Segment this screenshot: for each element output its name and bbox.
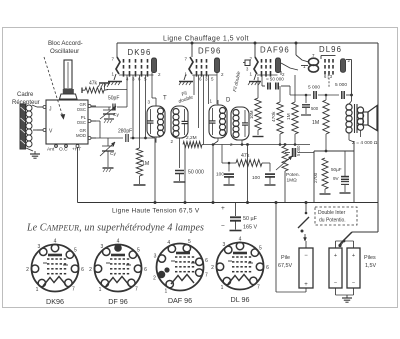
svg-text:1: 1 — [36, 287, 39, 293]
svg-text:50µF: 50µF — [331, 167, 342, 172]
svg-text:6: 6 — [205, 258, 208, 264]
svg-text:3: 3 — [37, 244, 40, 250]
svg-text:Oscillateur: Oscillateur — [50, 48, 79, 55]
svg-text:2: 2 — [89, 267, 92, 273]
svg-text:4: 4 — [167, 240, 170, 246]
svg-text:−: − — [352, 280, 355, 286]
svg-text:2: 2 — [26, 267, 29, 273]
svg-text:Ligne Haute Tension 67,5 V: Ligne Haute Tension 67,5 V — [112, 208, 200, 215]
svg-text:5: 5 — [188, 239, 191, 245]
svg-text:T: T — [163, 96, 167, 102]
svg-text:50 000: 50 000 — [188, 170, 204, 176]
svg-text:DK96: DK96 — [46, 297, 64, 306]
svg-text:165 V: 165 V — [243, 225, 257, 231]
svg-text:50pF: 50pF — [108, 96, 119, 102]
svg-text:7: 7 — [72, 286, 75, 292]
svg-text:DL 96: DL 96 — [231, 295, 250, 304]
svg-text:OSC: OSC — [77, 120, 86, 125]
svg-text:7: 7 — [257, 284, 260, 290]
svg-text:1M: 1M — [312, 120, 319, 126]
svg-text:DL96: DL96 — [319, 45, 342, 54]
svg-text:+: + — [352, 253, 355, 259]
svg-text:280pF: 280pF — [118, 129, 132, 135]
svg-text:1MΩ: 1MΩ — [287, 178, 298, 184]
svg-text:4: 4 — [239, 237, 242, 243]
svg-text:1: 1 — [99, 287, 102, 293]
svg-text:2700: 2700 — [313, 172, 318, 183]
svg-text:47k: 47k — [89, 81, 98, 87]
svg-text:Ant: Ant — [47, 147, 55, 153]
svg-text:Cy: Cy — [113, 112, 119, 118]
svg-text:DF96: DF96 — [198, 47, 221, 56]
svg-text:Ligne Chauffage 1,5 volt: Ligne Chauffage 1,5 volt — [163, 36, 249, 43]
svg-text:D: D — [226, 98, 231, 104]
svg-text:4: 4 — [54, 239, 57, 245]
svg-text:−: − — [304, 253, 308, 259]
svg-text:100: 100 — [252, 175, 260, 181]
svg-text:2,2M: 2,2M — [186, 135, 197, 141]
svg-text:−: − — [334, 280, 337, 286]
svg-text:1M: 1M — [286, 113, 292, 120]
svg-text:5: 5 — [259, 246, 262, 252]
svg-text:Cadre: Cadre — [17, 92, 34, 98]
svg-text:3: 3 — [100, 244, 103, 250]
svg-text:Le CAMPEUR, un superhétérodyne: Le CAMPEUR, un superhétérodyne 4 lampes — [26, 223, 204, 234]
svg-text:6 | 3: 6 | 3 — [324, 74, 333, 79]
svg-text:1M: 1M — [142, 161, 149, 167]
svg-text:7: 7 — [205, 273, 208, 279]
svg-text:5 000: 5 000 — [296, 145, 301, 156]
svg-text:1,5V: 1,5V — [365, 263, 376, 269]
svg-text:50 µF: 50 µF — [243, 216, 258, 222]
svg-text:5 000: 5 000 — [308, 85, 320, 91]
svg-text:DK96: DK96 — [128, 48, 152, 57]
svg-text:100: 100 — [216, 172, 224, 178]
svg-text:+: + — [221, 205, 225, 212]
svg-text:5: 5 — [137, 248, 140, 254]
svg-text:10M: 10M — [249, 110, 254, 119]
svg-text:+: + — [304, 282, 308, 288]
svg-text:Pile: Pile — [281, 255, 290, 261]
svg-text:Z = 4 000 Ω: Z = 4 000 Ω — [352, 140, 378, 146]
svg-text:2: 2 — [211, 265, 214, 271]
svg-text:DAF 96: DAF 96 — [168, 296, 192, 305]
svg-text:67,5V: 67,5V — [278, 263, 292, 269]
svg-text:MOD: MOD — [76, 133, 86, 138]
svg-text:6: 6 — [81, 267, 84, 273]
svg-text:4: 4 — [117, 239, 120, 245]
svg-text:DF 96: DF 96 — [108, 297, 128, 306]
svg-text:7: 7 — [135, 286, 138, 292]
svg-text:500: 500 — [311, 106, 319, 111]
svg-text:3: 3 — [222, 242, 225, 248]
svg-text:47k: 47k — [241, 153, 250, 159]
svg-text:6: 6 — [266, 265, 269, 271]
svg-text:≈ 50 000: ≈ 50 000 — [266, 77, 284, 82]
svg-text:DAF96: DAF96 — [260, 46, 290, 55]
svg-text:Piles: Piles — [364, 255, 376, 261]
svg-text:Double Inter: Double Inter — [318, 210, 346, 216]
svg-text:3: 3 — [154, 253, 157, 259]
svg-text:Bloc Accord-: Bloc Accord- — [48, 40, 83, 47]
svg-text:Poten.: Poten. — [286, 172, 300, 178]
svg-text:OSC: OSC — [77, 107, 86, 112]
svg-text:−: − — [221, 223, 225, 230]
svg-text:du Potentio.: du Potentio. — [319, 218, 346, 224]
svg-text:1: 1 — [221, 285, 224, 291]
svg-text:6: 6 — [144, 267, 147, 273]
svg-text:5 000: 5 000 — [335, 82, 347, 88]
svg-text:5: 5 — [74, 248, 77, 254]
svg-text:Cy: Cy — [110, 151, 116, 157]
svg-text:9V: 9V — [333, 176, 340, 181]
svg-text:2: 2 — [153, 275, 156, 281]
svg-text:470k: 470k — [271, 111, 277, 122]
svg-text:1: 1 — [164, 289, 167, 295]
svg-text:+: + — [334, 253, 337, 259]
